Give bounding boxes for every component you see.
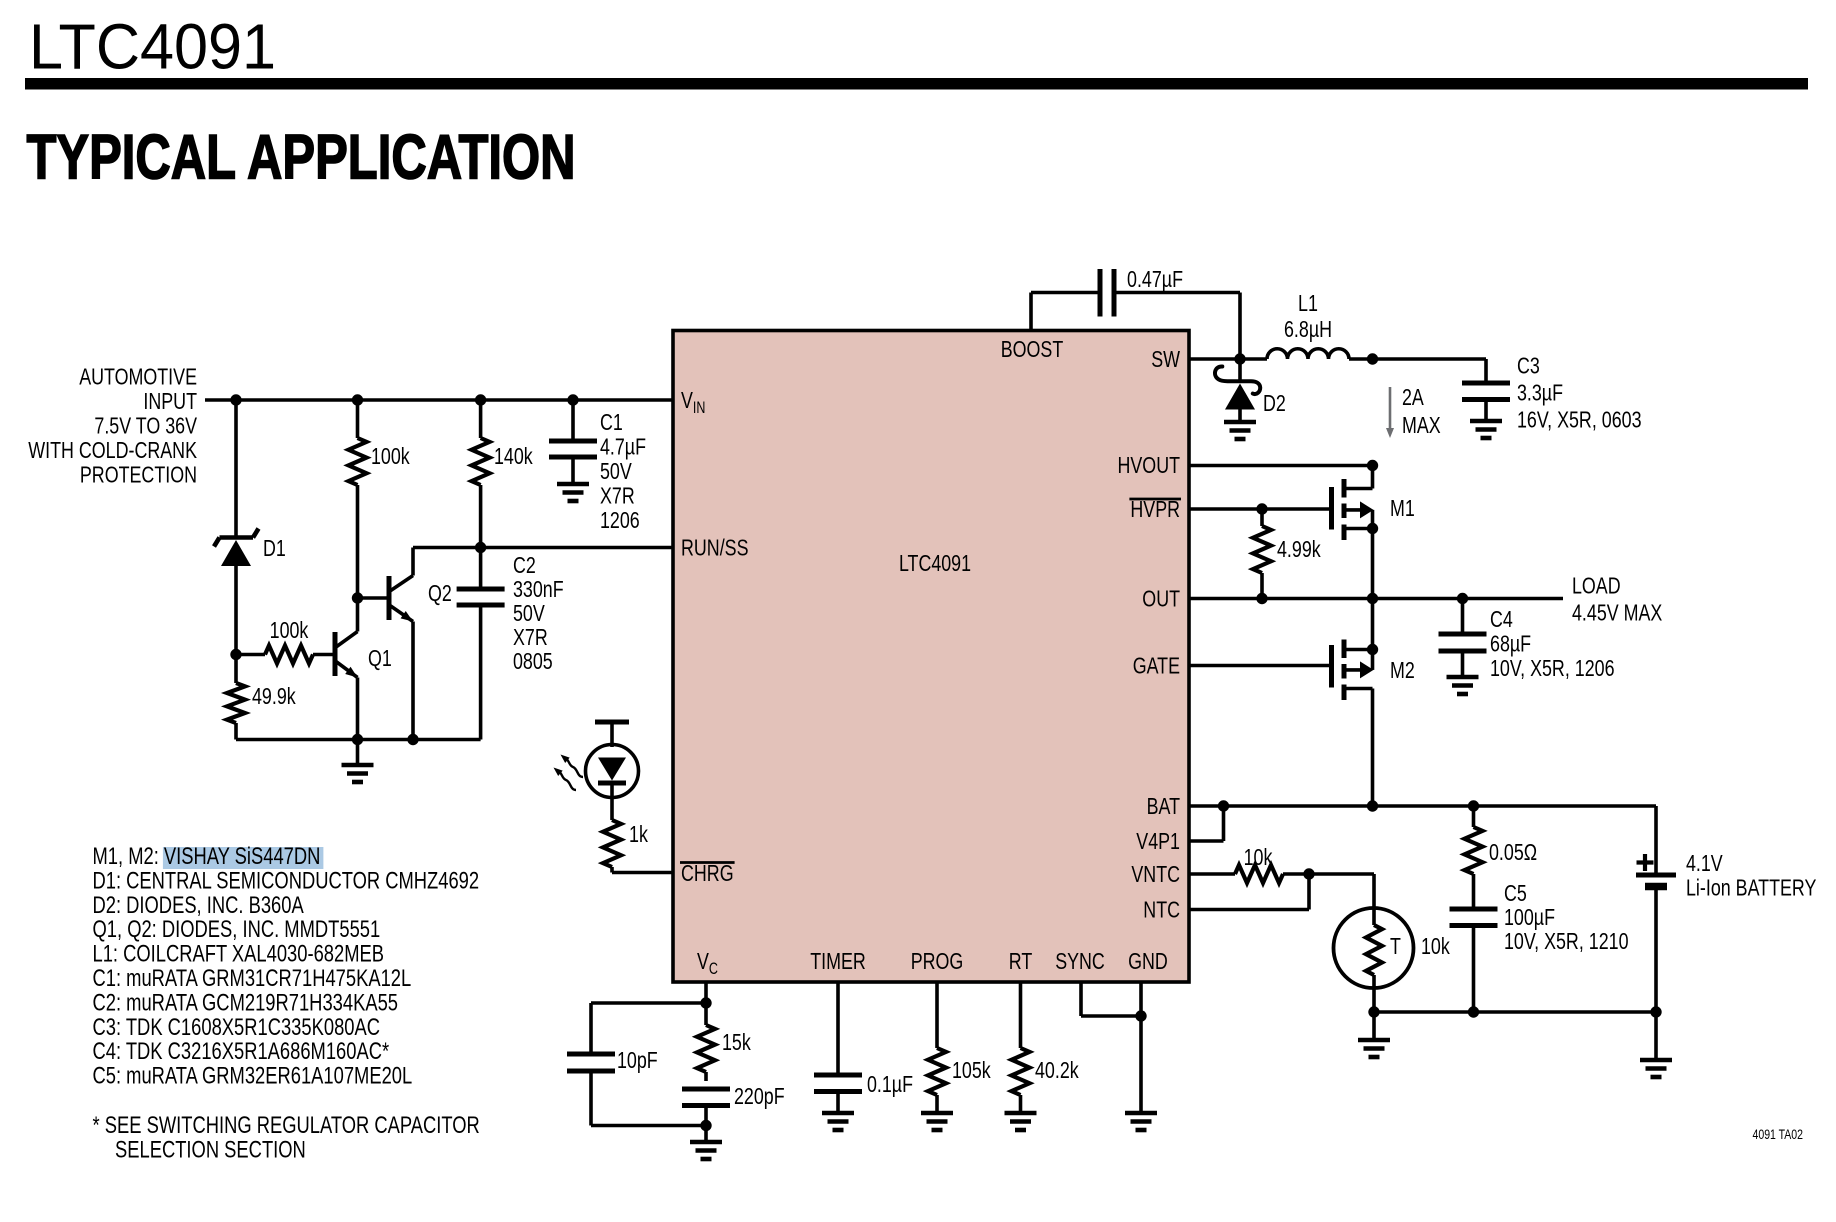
capacitor C3 3.3uF	[1484, 359, 1488, 381]
zener diode D1 (CMHZ4692)	[220, 535, 254, 540]
svg-text:SYNC: SYNC	[1055, 948, 1105, 974]
ground (GND pin)	[1125, 1111, 1157, 1116]
svg-text:D1: CENTRAL SEMICONDUCTOR CMHZ: D1: CENTRAL SEMICONDUCTOR CMHZ4692	[93, 867, 480, 894]
ground (C3)	[1470, 419, 1502, 424]
resistor 100k (Q1 base)	[265, 646, 313, 664]
svg-text:100k: 100k	[270, 617, 309, 643]
svg-text:C1: C1	[600, 409, 623, 435]
node C5/rail	[1468, 1006, 1479, 1017]
node Q2 emitter / rail	[407, 734, 418, 745]
svg-text:V: V	[697, 948, 709, 974]
svg-text:68µF: 68µF	[1490, 631, 1531, 657]
resistor 140k	[479, 400, 483, 438]
svg-text:C1: muRATA GRM31CR71H475KA12L: C1: muRATA GRM31CR71H475KA12L	[93, 965, 412, 992]
wire NTC net	[1189, 908, 1309, 912]
svg-text:MAX: MAX	[1402, 412, 1441, 438]
svg-text:50V: 50V	[600, 458, 632, 484]
MOSFET M1 (SiS447DN)	[1329, 487, 1334, 530]
wire GND pin drop	[1139, 982, 1143, 1113]
svg-text:D2: D2	[1263, 390, 1286, 416]
svg-text:10k: 10k	[1244, 844, 1273, 870]
resistor 49.9k	[234, 655, 238, 684]
resistor 40.2k (RT)	[1012, 1048, 1030, 1095]
svg-text:L1: COILCRAFT XAL4030-682MEB: L1: COILCRAFT XAL4030-682MEB	[93, 941, 385, 968]
svg-text:NTC: NTC	[1143, 897, 1180, 923]
svg-text:3.3µF: 3.3µF	[1517, 380, 1563, 406]
svg-text:105k: 105k	[952, 1057, 991, 1083]
capacitor C1 4.7uF	[571, 400, 575, 439]
thermistor T 10k	[1334, 908, 1414, 988]
resistor 4.99k	[1260, 509, 1264, 526]
svg-text:16V, X5R, 0603: 16V, X5R, 0603	[1517, 407, 1642, 433]
svg-text:Q1: Q1	[368, 645, 392, 671]
svg-text:100µF: 100µF	[1504, 904, 1555, 930]
svg-text:C2: C2	[513, 552, 536, 578]
svg-text:LTC4091: LTC4091	[899, 550, 971, 576]
inductor L1 6.8uH	[1267, 349, 1349, 359]
svg-text:10V, X5R, 1206: 10V, X5R, 1206	[1490, 655, 1615, 681]
svg-text:RUN/SS: RUN/SS	[681, 535, 749, 561]
ground (thermistor)	[1372, 1012, 1376, 1040]
node SYNC/GND junction	[1135, 1010, 1146, 1021]
svg-text:10V, X5R, 1210: 10V, X5R, 1210	[1504, 928, 1629, 954]
svg-text:Q2: Q2	[428, 580, 452, 606]
capacitor C5 100uF	[1450, 907, 1498, 912]
svg-text:220pF: 220pF	[734, 1083, 785, 1109]
svg-text:4.45V MAX: 4.45V MAX	[1572, 600, 1663, 626]
wire M2 drain to BAT	[1371, 689, 1375, 807]
wire VNTC net	[1189, 872, 1235, 876]
svg-text:10k: 10k	[1421, 933, 1450, 959]
wire OUT net	[1189, 597, 1563, 601]
svg-text:TYPICAL APPLICATION: TYPICAL APPLICATION	[27, 123, 576, 193]
wire M1 source to OUT	[1371, 529, 1375, 599]
svg-text:15k: 15k	[722, 1029, 751, 1055]
svg-text:100k: 100k	[371, 443, 410, 469]
wire D1 anode drop	[234, 400, 238, 539]
node BAT / M2	[1367, 800, 1378, 811]
svg-text:M1, M2: VISHAY SiS447DN: M1, M2: VISHAY SiS447DN	[93, 843, 321, 870]
highlight on VISHAY SiS447DN	[163, 847, 323, 869]
node OUT / M1-M2	[1367, 593, 1378, 604]
svg-text:* SEE SWITCHING REGULATOR CAPA: * SEE SWITCHING REGULATOR CAPACITOR	[93, 1112, 480, 1139]
node VNTC / NTC junction	[1303, 868, 1314, 879]
svg-text:GND: GND	[1128, 948, 1168, 974]
wire RT pin drop	[1019, 982, 1023, 1048]
svg-text:M2: M2	[1390, 657, 1415, 683]
resistor 0.05 ohm sense	[1472, 806, 1476, 827]
node HVOUT / M1 drain	[1367, 460, 1378, 471]
svg-text:X7R: X7R	[600, 483, 635, 509]
svg-text:Q1, Q2: DIODES, INC. MMDT5551: Q1, Q2: DIODES, INC. MMDT5551	[93, 916, 381, 943]
node M2 source/body tie	[1367, 644, 1378, 655]
svg-text:SW: SW	[1151, 346, 1180, 372]
svg-text:1k: 1k	[629, 821, 648, 847]
wire BOOST riser	[1029, 293, 1033, 331]
transistor Q1 (NPN MMDT5551)	[333, 632, 338, 676]
svg-text:49.9k: 49.9k	[252, 683, 296, 709]
svg-text:T: T	[1390, 933, 1401, 959]
svg-text:LOAD: LOAD	[1572, 573, 1621, 599]
svg-text:V4P1: V4P1	[1136, 828, 1180, 854]
svg-text:4.99k: 4.99k	[1277, 536, 1321, 562]
svg-text:X7R: X7R	[513, 624, 548, 650]
resistor 105k (PROG)	[928, 1048, 946, 1095]
svg-text:4091 TA02: 4091 TA02	[1753, 1127, 1804, 1142]
svg-text:CHRG: CHRG	[681, 860, 734, 886]
svg-text:C: C	[709, 960, 718, 978]
wire 10pF loop top	[591, 1001, 706, 1005]
wire Q2 base	[358, 596, 390, 600]
svg-text:140k: 140k	[494, 443, 533, 469]
svg-text:10pF: 10pF	[617, 1047, 658, 1073]
capacitor C4 68uF	[1461, 599, 1465, 632]
wire OUT to M2 source	[1371, 599, 1375, 650]
capacitor C2 330nF	[479, 548, 483, 587]
svg-text:Li-Ion BATTERY: Li-Ion BATTERY	[1686, 875, 1817, 901]
svg-text:C5: muRATA GRM32ER61A107ME20L: C5: muRATA GRM32ER61A107ME20L	[93, 1063, 413, 1090]
capacitor 10pF	[567, 1052, 615, 1057]
capacitor 0.47uF (boost)	[1098, 269, 1103, 317]
node VC network ground junction	[700, 1120, 711, 1131]
svg-text:1206: 1206	[600, 507, 640, 533]
wire TIMER pin drop	[836, 982, 840, 1073]
wire BAT net	[1189, 804, 1656, 808]
wire L1 to C3	[1349, 357, 1486, 361]
svg-text:RT: RT	[1009, 948, 1033, 974]
wire GATE net	[1189, 664, 1332, 668]
wire VNTC to thermistor	[1283, 872, 1374, 876]
node Q1 emitter / rail	[352, 734, 363, 745]
node thermistor/rail	[1368, 1006, 1379, 1017]
wire V4P1 net	[1189, 839, 1224, 843]
svg-text:4.7µF: 4.7µF	[600, 434, 646, 460]
wire SW pin	[1189, 357, 1240, 361]
node M1 source/body tie	[1367, 523, 1378, 534]
svg-text:INPUT: INPUT	[143, 388, 197, 414]
wire PROG pin drop	[935, 982, 939, 1048]
resistor 10k (VNTC)	[1235, 865, 1283, 883]
node battery/rail	[1650, 1006, 1661, 1017]
ground (C4)	[1447, 675, 1479, 680]
svg-text:OUT: OUT	[1142, 586, 1180, 612]
node HVPR / R4.99k	[1256, 503, 1267, 514]
node RUN/SS / R140k / C2 junction	[475, 542, 486, 553]
svg-text:PROG: PROG	[911, 948, 964, 974]
node input/R140k junction	[475, 394, 486, 405]
wire CHRG net	[612, 871, 673, 875]
svg-text:VNTC: VNTC	[1131, 861, 1180, 887]
ground (battery)	[1654, 1012, 1658, 1060]
node input/C1 junction	[567, 394, 578, 405]
node OUT / R4.99k	[1256, 593, 1267, 604]
IC U1 LTC4091 body	[673, 331, 1189, 983]
node L1 out / HVOUT riser	[1367, 353, 1378, 364]
wire M1 drain riser	[1371, 466, 1375, 489]
svg-text:C3: TDK C1608X5R1C335K080AC: C3: TDK C1608X5R1C335K080AC	[93, 1014, 381, 1041]
ground (TIMER)	[822, 1111, 854, 1116]
svg-text:C2: muRATA GCM219R71H334KA55: C2: muRATA GCM219R71H334KA55	[93, 989, 399, 1016]
ground (C1)	[557, 482, 589, 487]
node VC junction	[700, 997, 711, 1008]
svg-text:2A: 2A	[1402, 384, 1424, 410]
wire HVPR net	[1189, 507, 1332, 511]
svg-text:V: V	[681, 387, 693, 413]
svg-text:50V: 50V	[513, 600, 545, 626]
svg-text:WITH COLD-CRANK: WITH COLD-CRANK	[28, 437, 197, 463]
svg-text:C4: C4	[1490, 606, 1513, 632]
node OUT / C4	[1457, 593, 1468, 604]
svg-text:330nF: 330nF	[513, 576, 564, 602]
svg-text:L1: L1	[1298, 290, 1318, 316]
wire thermistor to ground rail	[1372, 988, 1376, 1012]
battery plus sign	[1637, 860, 1654, 864]
LED D3 charge indicator	[595, 720, 629, 725]
ground (D2)	[1224, 420, 1256, 425]
svg-text:7.5V TO 36V: 7.5V TO 36V	[94, 413, 197, 439]
wire SW to L1	[1240, 357, 1267, 361]
svg-text:C5: C5	[1504, 880, 1527, 906]
current annotation 2A MAX arrow	[1389, 387, 1392, 429]
svg-text:D1: D1	[263, 535, 286, 561]
wire 10pF loop bottom	[589, 1074, 593, 1126]
capacitor 0.1uF (TIMER)	[814, 1073, 862, 1078]
node BAT / R0.05	[1468, 800, 1479, 811]
wire ground rail (Q1/Q2 emitters)	[236, 738, 481, 742]
node SW / D2 junction	[1234, 353, 1245, 364]
wire VIN input rail	[205, 398, 673, 402]
svg-text:40.2k: 40.2k	[1035, 1057, 1079, 1083]
svg-text:6.8µH: 6.8µH	[1284, 316, 1332, 342]
node BAT / V4P1	[1218, 800, 1229, 811]
svg-text:BOOST: BOOST	[1001, 336, 1064, 362]
svg-text:0.47µF: 0.47µF	[1127, 266, 1183, 292]
svg-text:0.05Ω: 0.05Ω	[1489, 839, 1537, 865]
svg-text:BAT: BAT	[1147, 793, 1180, 819]
svg-text:SELECTION SECTION: SELECTION SECTION	[115, 1137, 306, 1164]
ground (PROG)	[921, 1111, 953, 1116]
header rule	[25, 78, 1808, 90]
svg-text:GATE: GATE	[1133, 653, 1180, 679]
node input/R100k junction	[352, 394, 363, 405]
svg-text:AUTOMOTIVE: AUTOMOTIVE	[79, 364, 197, 390]
svg-text:HVOUT: HVOUT	[1118, 452, 1181, 478]
wire SYNC pin to GND	[1079, 982, 1083, 1016]
svg-text:C4: TDK C3216X5R1A686M160AC*: C4: TDK C3216X5R1A686M160AC*	[93, 1038, 390, 1065]
svg-text:PROTECTION: PROTECTION	[80, 462, 197, 488]
schottky diode D2 (B360A)	[1238, 359, 1242, 382]
resistor 15k (VC)	[704, 1003, 708, 1025]
wire base network	[236, 653, 265, 657]
capacitor 220pF (VC)	[682, 1087, 730, 1092]
svg-text:TIMER: TIMER	[810, 948, 866, 974]
node input/D1 junction	[230, 394, 241, 405]
svg-text:M1: M1	[1390, 495, 1415, 521]
svg-text:C3: C3	[1517, 353, 1540, 379]
svg-text:LTC4091: LTC4091	[29, 11, 276, 83]
ground (RT)	[1005, 1111, 1037, 1116]
node Q1 collector / Q2 base	[352, 592, 363, 603]
svg-text:D2: DIODES, INC. B360A: D2: DIODES, INC. B360A	[93, 892, 304, 919]
wire battery ground rail	[1374, 1010, 1656, 1014]
wire VC pin drop	[704, 982, 708, 1003]
node D1/R100k/R49.9k junction	[230, 649, 241, 660]
wire HVOUT net	[1189, 464, 1373, 468]
LED light emission arrows	[563, 757, 583, 777]
wire RUN/SS net	[413, 546, 673, 550]
ground (input divider rail)	[356, 740, 360, 766]
svg-text:4.1V: 4.1V	[1686, 850, 1723, 876]
resistor 100k (from input to Q1 collector)	[356, 400, 360, 438]
ground (VC network)	[704, 1126, 708, 1143]
transistor Q2 (NPN MMDT5551)	[387, 576, 392, 620]
wire boost cap to SW node	[1114, 291, 1240, 295]
svg-text:0.1µF: 0.1µF	[867, 1071, 913, 1097]
MOSFET M2 (SiS447DN)	[1329, 645, 1334, 688]
resistor 1k (LED)	[603, 820, 621, 867]
battery BT1 4.1V Li-Ion	[1654, 806, 1658, 875]
svg-text:0805: 0805	[513, 648, 553, 674]
svg-text:IN: IN	[693, 399, 706, 417]
